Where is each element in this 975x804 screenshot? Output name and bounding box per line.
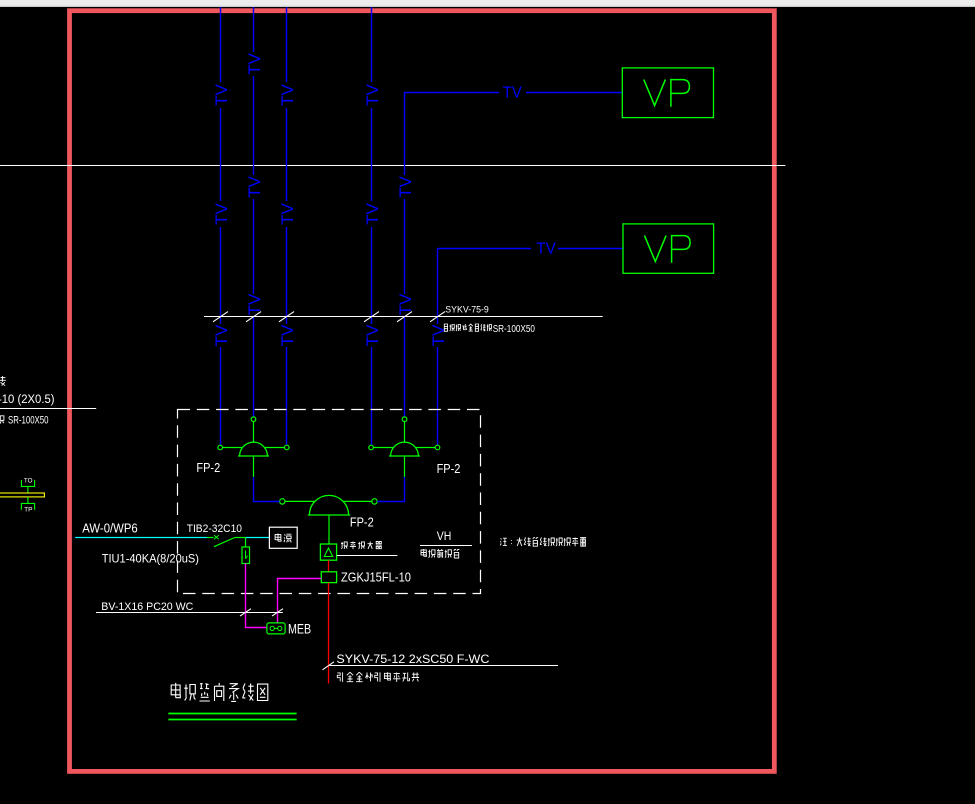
TV tap label on riser R5: [397, 293, 415, 315]
label FP-2 (bottom): [350, 516, 374, 530]
crossing tick 1 on earth leader: [240, 609, 251, 616]
title TV vertical system diagram: [171, 683, 268, 702]
note branch spec: [500, 537, 586, 546]
svg-text:TV: TV: [246, 176, 264, 198]
wire riser R4: [371, 7, 373, 445]
label TIU1-40KA(8/20uS): [102, 551, 199, 565]
svg-text:TIU1-40KA(8/20uS): TIU1-40KA(8/20uS): [102, 551, 199, 565]
TP bracket: [21, 503, 34, 510]
svg-text:TV: TV: [364, 324, 382, 346]
splitter FP-2 (right) output stem: [404, 456, 406, 477]
crossing tick on incoming cable: [323, 662, 335, 670]
label MEB: [288, 622, 311, 637]
svg-text:-10 (2X0.5): -10 (2X0.5): [0, 392, 55, 406]
top margin strip: [0, 0, 975, 7]
svg-text:FP-2: FP-2: [350, 516, 374, 530]
svg-text:ZGKJ15FL-10: ZGKJ15FL-10: [341, 570, 411, 585]
wire MEB to arrester (magenta): [278, 579, 322, 623]
MEB terminal block: [267, 623, 285, 634]
TP stem: [27, 497, 29, 504]
svg-text:VH: VH: [437, 531, 452, 543]
TV tap label on riser R1: [213, 203, 231, 225]
TV outlet box VP2: [623, 224, 714, 273]
surge protector F1: [242, 547, 250, 564]
wire right splitter feed: [377, 477, 404, 502]
crossing tick 2 on trunk leader: [246, 312, 261, 322]
TV tap label on riser R2: [246, 176, 264, 198]
TV tap label on riser R4: [364, 324, 382, 346]
TV tap label on riser R1: [213, 324, 231, 346]
svg-text:AW-0/WP6: AW-0/WP6: [82, 521, 137, 536]
svg-text:SYKV-75-9: SYKV-75-9: [445, 304, 489, 314]
crossing tick 4 on trunk leader: [364, 312, 379, 322]
TV tap label on riser R2: [246, 293, 264, 315]
wire incoming cable (red): [328, 583, 330, 684]
splitter FP-2 (bottom) input stem: [328, 515, 330, 544]
label TIB2-32C10: [187, 523, 242, 535]
svg-text:TV: TV: [213, 84, 231, 106]
TV tap label on riser R3: [279, 84, 297, 106]
wire SPD to MEB (magenta): [246, 564, 267, 628]
crossing tick 2 on earth leader: [272, 609, 283, 616]
svg-text:TV: TV: [279, 84, 297, 106]
TV tap label on riser R3: [279, 203, 297, 225]
svg-text:TV: TV: [213, 203, 231, 225]
TV tap label on riser R6: [430, 324, 448, 346]
TV tap label on riser R1: [213, 84, 231, 106]
trunk leader line: [204, 316, 603, 318]
label power source: [275, 534, 291, 543]
svg-text:TV: TV: [536, 240, 556, 257]
svg-text:TV: TV: [279, 203, 297, 225]
lightning arrester ZGKJ box: [321, 572, 336, 583]
crossing tick 5 on trunk leader: [397, 312, 412, 322]
svg-text:TV: TV: [246, 53, 264, 75]
label TV head-end box: [421, 549, 459, 558]
wire riser R5: [404, 92, 406, 417]
svg-text:FP-2: FP-2: [196, 460, 220, 475]
label VP2: [645, 236, 691, 263]
amplifier label underline: [337, 555, 398, 557]
wire branch to VP2: [438, 248, 624, 250]
TV tap label on riser R5: [397, 176, 415, 198]
label VH: [437, 531, 452, 543]
svg-text:TV: TV: [364, 203, 382, 225]
VH fraction line: [420, 545, 472, 547]
title underline 1: [168, 713, 296, 715]
title underline 2: [168, 719, 296, 721]
svg-text:TIB2-32C10: TIB2-32C10: [187, 523, 242, 535]
label metal trunking SR-100X50: [444, 324, 535, 335]
floor separation line: [0, 165, 785, 167]
power source box: [269, 527, 297, 548]
crossing tick 1 on trunk leader: [213, 312, 228, 322]
label SYKV-75-9: [445, 304, 489, 314]
bus bar (yellow): [0, 493, 44, 497]
splitter FP-2 (right): [369, 417, 440, 456]
label VP1: [644, 80, 690, 107]
label AW-0/WP6: [82, 521, 137, 536]
label lead to outdoor handhole: [337, 672, 419, 682]
crossing tick 6 on trunk leader: [430, 312, 445, 322]
label TO: [24, 479, 33, 485]
label BV-1X16 PC20 WC: [101, 601, 193, 613]
svg-text:BV-1X16 PC20 WC: BV-1X16 PC20 WC: [101, 601, 193, 613]
svg-text:TO: TO: [24, 479, 33, 485]
earth wire leader line: [96, 612, 283, 614]
svg-text:SR-100X50: SR-100X50: [493, 324, 536, 335]
svg-text:TV: TV: [364, 84, 382, 106]
clipped label -10 (2X0.5): [0, 392, 55, 406]
label ZGKJ15FL-10: [341, 570, 411, 585]
drawing frame (red border): [70, 11, 775, 772]
TV tap label on riser R3: [279, 324, 297, 346]
breaker QF hinge mark: [214, 535, 219, 539]
clipped label trunking SR-100X50: [0, 415, 48, 427]
svg-text:TV: TV: [430, 324, 448, 346]
label signal amplifier: [341, 542, 382, 550]
label TP: [24, 507, 32, 513]
left margin leader line: [0, 408, 96, 410]
splitter FP-2 (left) output stem: [253, 456, 255, 477]
svg-text:FP-2: FP-2: [437, 461, 461, 476]
TO bracket: [21, 480, 34, 487]
amplifier U1 (signal booster): [320, 544, 336, 560]
svg-text:TV: TV: [503, 84, 523, 101]
TV label on VP2 branch: [536, 240, 556, 257]
dashed enclosure (TV head-end): [178, 410, 481, 594]
wire riser R6: [437, 248, 439, 445]
wire amplifier input (red): [328, 560, 330, 572]
TV label on VP1 branch: [503, 84, 523, 101]
TV tap label on riser R4: [364, 203, 382, 225]
svg-text:MEB: MEB: [288, 622, 311, 637]
TV tap label on riser R4: [364, 84, 382, 106]
wire branch to VP1: [405, 92, 623, 94]
wire riser R3: [286, 7, 288, 445]
svg-text:SR-100X50: SR-100X50: [8, 415, 49, 427]
splitter FP-2 (left): [218, 417, 289, 456]
TV tap label on riser R2: [246, 53, 264, 75]
TO stem: [27, 486, 29, 493]
svg-text:TV: TV: [279, 324, 297, 346]
wire power feed (cyan): [75, 537, 213, 539]
wire to power box (cyan): [235, 537, 270, 539]
wire SPD stub (green): [245, 538, 247, 548]
svg-text:TV: TV: [397, 176, 415, 198]
label FP-2 (left): [196, 460, 220, 475]
label FP-2 (right): [437, 461, 461, 476]
crossing tick 3 on trunk leader: [279, 312, 294, 322]
label SYKV-75-12 2xSC50 F-WC: [336, 652, 489, 666]
clipped label fiber: [0, 376, 6, 386]
wire left splitter feed: [254, 477, 280, 502]
wire riser R2: [253, 7, 255, 417]
TV outlet box VP1: [622, 68, 713, 118]
svg-text:TV: TV: [213, 324, 231, 346]
svg-text:TP: TP: [24, 507, 32, 513]
splitter FP-2 (bottom): [280, 495, 378, 515]
svg-text:SYKV-75-12 2xSC50 F-WC: SYKV-75-12 2xSC50 F-WC: [336, 652, 489, 666]
wire riser R1: [220, 7, 222, 445]
incoming cable leader line: [330, 665, 558, 667]
breaker QF blade: [214, 538, 235, 547]
